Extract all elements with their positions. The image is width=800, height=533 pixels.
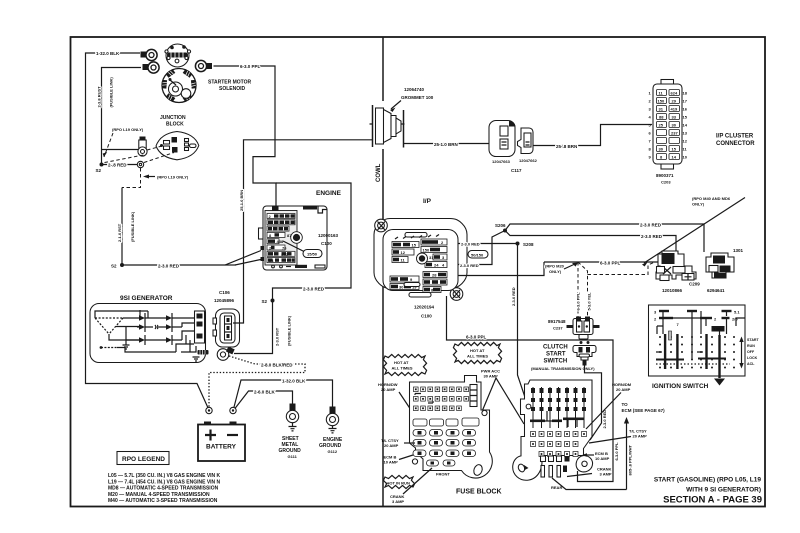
svg-text:RUN: RUN — [747, 344, 755, 348]
svg-text:438: 438 — [277, 239, 284, 244]
RPO legend box — [117, 452, 169, 465]
wire 1-32.0 BLK battery negative to engine ground — [233, 380, 333, 411]
svg-text:8900371: 8900371 — [656, 173, 674, 178]
wire 25-1.0 BRN grommet to C117 — [404, 143, 491, 145]
svg-text:C209: C209 — [689, 282, 700, 287]
svg-text:START: START — [546, 352, 566, 358]
engine ground G112 — [330, 407, 336, 415]
grommet 100 — [372, 105, 374, 147]
svg-text:30: 30 — [672, 123, 677, 128]
svg-text:94: 94 — [269, 258, 274, 263]
node S206 — [503, 229, 507, 233]
pin grid left upper — [392, 242, 419, 263]
svg-text:MD8 — AUTOMATIC 4-SPEED TRANSM: MD8 — AUTOMATIC 4-SPEED TRANSMISSION — [108, 486, 219, 492]
keyway bottom — [404, 283, 420, 287]
svg-text:10: 10 — [683, 155, 688, 160]
connector C100 engine side pin grid — [265, 211, 297, 266]
wire 2-6.0 BLK battery negative to sheet metal ground — [233, 391, 293, 411]
wire cowl bulkhead line — [382, 37, 384, 507]
svg-text:12064740: 12064740 — [404, 87, 425, 92]
dashed wire 6-3.0 PPL to clutch switch C237 — [577, 262, 579, 318]
svg-text:15/50: 15/50 — [307, 252, 318, 257]
svg-text:76: 76 — [282, 245, 287, 250]
svg-text:20 AMP: 20 AMP — [384, 443, 399, 448]
fuse block rear bottom slots — [541, 456, 546, 462]
svg-text:C117: C117 — [511, 168, 522, 173]
svg-text:2-3.0 RED: 2-3.0 RED — [303, 287, 325, 292]
fuse block front fuse rows — [413, 418, 479, 466]
svg-text:130: 130 — [714, 327, 721, 332]
bolt center — [417, 253, 428, 264]
connector 1301 body — [706, 253, 734, 278]
pin grid left lower — [390, 276, 419, 290]
left mounting tab — [259, 228, 264, 239]
terminal 130 — [712, 326, 725, 332]
svg-text:2-3.0 RED: 2-3.0 RED — [640, 223, 662, 228]
svg-text:I/P CLUSTER: I/P CLUSTER — [716, 134, 754, 140]
svg-text:I/P: I/P — [423, 198, 432, 205]
dashed wire eyelet to junction block — [144, 153, 174, 163]
svg-text:S2: S2 — [262, 299, 268, 304]
svg-text:3 AMP: 3 AMP — [600, 472, 612, 477]
svg-text:(FUSIBLE LINK): (FUSIBLE LINK) — [109, 77, 114, 108]
ignition switch wiper bars — [665, 334, 719, 378]
svg-text:ECM (SEE PAGE 67): ECM (SEE PAGE 67) — [622, 408, 666, 413]
rectifier ground — [123, 345, 130, 349]
svg-text:20 AMP: 20 AMP — [633, 434, 648, 439]
svg-text:IGNITION SWITCH: IGNITION SWITCH — [652, 383, 709, 390]
svg-text:2-3.0 RED: 2-3.0 RED — [641, 234, 663, 239]
wire 6-3.0 PPL to C209 — [544, 261, 658, 263]
ignition switch contact dots — [659, 336, 735, 369]
key position arrow — [741, 340, 743, 365]
svg-text:(MANUAL TRANSMISSION ONLY): (MANUAL TRANSMISSION ONLY) — [531, 366, 595, 371]
wire 25-1.0 BRN grommet to generator connector C106 — [233, 140, 372, 323]
connector C100 I/P side body — [374, 219, 467, 289]
svg-text:FUSE BLOCK: FUSE BLOCK — [456, 489, 502, 496]
svg-text:GROMMET 100: GROMMET 100 — [401, 95, 434, 100]
svg-text:CONNECTOR: CONNECTOR — [716, 141, 755, 147]
battery terminal studs — [206, 407, 212, 413]
bottom edge terminals — [272, 265, 275, 268]
svg-text:2-1.0 RST: 2-1.0 RST — [117, 223, 122, 242]
wire 805-.8 PPL/WHT ECM arrow — [552, 420, 627, 490]
stator phase leads — [95, 311, 148, 340]
svg-text:L19 — 7.4L (454 CU. IN.) V8 GA: L19 — 7.4L (454 CU. IN.) V8 GAS ENGINE V… — [108, 479, 221, 485]
ignition switch internal wiring — [657, 311, 745, 360]
rotor field brush lead — [100, 346, 103, 349]
svg-text:RPO LEGEND: RPO LEGEND — [122, 456, 165, 463]
wire junction block stud feed — [102, 149, 139, 151]
svg-text:2-3.0 RED: 2-3.0 RED — [602, 410, 607, 429]
pin grid right lower — [423, 272, 447, 293]
svg-text:2-3.0 RST: 2-3.0 RST — [275, 327, 280, 346]
svg-text:HOT IN RUN: HOT IN RUN — [387, 481, 410, 486]
svg-text:25-.8 BRN: 25-.8 BRN — [556, 144, 577, 149]
svg-text:OFF: OFF — [747, 350, 755, 354]
wire 1-32.0 BLK from ring terminal to battery positive — [86, 53, 210, 411]
svg-text:L05 — 5.7L (350 CU. IN.) V8 GA: L05 — 5.7L (350 CU. IN.) V8 GAS ENGINE V… — [108, 473, 221, 479]
rectifier bridge diodes — [139, 315, 172, 343]
svg-text:G112: G112 — [328, 449, 338, 454]
node S2 right splice — [271, 299, 275, 303]
connector C100 I/P inner shell — [383, 230, 458, 291]
svg-text:SECTION A - PAGE 39: SECTION A - PAGE 39 — [663, 495, 762, 506]
svg-text:150: 150 — [658, 99, 665, 104]
svg-text:SWITCH: SWITCH — [544, 359, 568, 365]
svg-text:30: 30 — [659, 147, 664, 152]
keyway top — [405, 233, 427, 238]
fuse block rear terminal columns — [533, 387, 584, 428]
svg-text:2-8.0 BLK/RED: 2-8.0 BLK/RED — [261, 363, 293, 368]
clutch start switch connector — [580, 341, 583, 344]
connector C237 clutch switch — [573, 319, 593, 335]
svg-text:C100: C100 — [321, 241, 332, 246]
svg-text:12047663: 12047663 — [492, 159, 511, 164]
svg-text:17: 17 — [683, 99, 688, 104]
connector C100 bolt — [291, 232, 303, 244]
svg-text:12: 12 — [683, 139, 688, 144]
dashed lead RPO L19 to junction block — [147, 146, 162, 150]
generator BAT output stud — [198, 350, 209, 355]
terminal eyelet 2-.8 RED — [137, 161, 143, 167]
ring terminal battery cable 1 — [141, 52, 147, 58]
wire 6-3.0 PPL I/P bottom to fuse block — [447, 296, 614, 482]
cluster connector pin numbers — [658, 91, 679, 160]
svg-text:ONLY): ONLY) — [692, 202, 705, 207]
node S2 engine harness splice — [100, 163, 104, 167]
svg-text:472: 472 — [281, 252, 288, 257]
generator internal output leads — [176, 335, 196, 352]
svg-text:C100: C100 — [421, 314, 432, 319]
contact bus bars — [656, 359, 726, 360]
svg-text:2-3.0 RED: 2-3.0 RED — [158, 264, 180, 269]
svg-text:2-3.8 RUST: 2-3.8 RUST — [97, 86, 102, 108]
cluster connector cavity numbers — [649, 91, 688, 160]
wire loop engine connector to S2 splice (2-3.0 RED) — [234, 183, 351, 354]
mounting ear bottom right — [450, 288, 463, 301]
svg-text:12: 12 — [401, 250, 406, 255]
svg-text:18: 18 — [683, 91, 688, 96]
svg-text:(RPO L19 ONLY): (RPO L19 ONLY) — [157, 175, 189, 180]
rectifier bus wiring — [126, 310, 196, 345]
svg-text:CLUTCH: CLUTCH — [543, 345, 568, 351]
wire 2-1.0 RST fusible link down to S2 — [121, 188, 123, 266]
sheet metal ground G111 — [290, 404, 296, 412]
I/P cluster connector C203 body — [661, 80, 674, 85]
wire 2-.8 RED S2 to junction terminal — [102, 164, 138, 166]
svg-text:WITH 9 SI GENERATOR): WITH 9 SI GENERATOR) — [686, 487, 761, 494]
border frame — [71, 37, 766, 507]
svg-text:(RPO M20: (RPO M20 — [545, 264, 565, 269]
svg-text:ACL: ACL — [747, 362, 755, 366]
connector C209 body — [656, 251, 696, 279]
ring terminal battery cable 2 — [143, 64, 149, 70]
svg-text:HOT AT: HOT AT — [394, 360, 409, 365]
svg-text:(FUSIBLE LINK): (FUSIBLE LINK) — [287, 315, 292, 346]
svg-text:2/5: 2/5 — [732, 317, 738, 322]
svg-text:ENGINE: ENGINE — [316, 190, 342, 197]
connector C100 engine side body — [263, 206, 327, 270]
dashed wire 5-3.0 YEL C237 to C209 — [578, 262, 655, 318]
svg-text:25-1.0 BRN: 25-1.0 BRN — [434, 142, 458, 147]
svg-text:(RPO L19 ONLY): (RPO L19 ONLY) — [112, 127, 144, 132]
svg-text:JUNCTION: JUNCTION — [160, 115, 186, 121]
hot at all times squiggle middle — [453, 342, 501, 363]
svg-text:G111: G111 — [288, 454, 298, 459]
svg-text:9SI GENERATOR: 9SI GENERATOR — [120, 295, 173, 302]
junction block body — [156, 132, 199, 160]
svg-text:C237: C237 — [553, 326, 563, 331]
svg-text:6-3.0 PPL: 6-3.0 PPL — [600, 261, 621, 266]
svg-text:S206: S206 — [495, 223, 506, 228]
svg-text:2-6.0 BLK: 2-6.0 BLK — [254, 390, 276, 395]
svg-text:30: 30 — [399, 285, 404, 290]
svg-text:12047662: 12047662 — [519, 158, 538, 163]
svg-text:1-32.0 BLK: 1-32.0 BLK — [282, 379, 306, 384]
pointer V to fuse blocks — [478, 378, 524, 424]
pin grid right upper — [421, 239, 447, 268]
stator delta winding — [95, 318, 123, 334]
svg-text:6-3.0 PPL: 6-3.0 PPL — [576, 292, 581, 311]
wire 2-3.0 RED clutch switch to fuse block rear — [585, 365, 602, 440]
starter motor solenoid body — [162, 69, 196, 103]
svg-text:C106: C106 — [219, 290, 230, 295]
svg-text:25: 25 — [659, 123, 664, 128]
svg-text:2-.8 RED: 2-.8 RED — [108, 163, 127, 168]
svg-text:12010866: 12010866 — [662, 288, 683, 293]
connector C106 body — [216, 309, 240, 347]
svg-text:12020194: 12020194 — [414, 305, 435, 310]
pin top PPL entry — [272, 207, 279, 212]
generator terminal block — [195, 311, 205, 343]
svg-text:1-32.0 BLK: 1-32.0 BLK — [96, 51, 120, 56]
svg-text:5.1: 5.1 — [734, 310, 740, 315]
svg-text:M20 — MANUAL 4-SPEED TRANSMISS: M20 — MANUAL 4-SPEED TRANSMISSION — [108, 492, 210, 498]
connector 12047662 half of C117 — [518, 128, 534, 154]
svg-text:FRONT: FRONT — [436, 472, 450, 477]
svg-text:START: START — [747, 338, 760, 342]
svg-text:STARTER MOTOR: STARTER MOTOR — [208, 80, 252, 86]
svg-text:10 AMP: 10 AMP — [384, 460, 399, 465]
svg-text:15: 15 — [412, 243, 417, 248]
svg-text:3 AMP: 3 AMP — [392, 499, 404, 504]
svg-text:88: 88 — [659, 115, 664, 120]
generator housing — [90, 304, 206, 363]
svg-text:25-1.0 BRN: 25-1.0 BRN — [239, 190, 244, 211]
svg-text:6294641: 6294641 — [707, 288, 725, 293]
svg-text:HOT AT: HOT AT — [470, 348, 485, 353]
wire 6-3.0 PPL solenoid to engine connector — [214, 66, 277, 212]
junction block internal terminals — [172, 137, 178, 143]
svg-text:10 AMP: 10 AMP — [595, 456, 610, 461]
svg-text:31: 31 — [429, 255, 434, 260]
starter solenoid top stud connector — [166, 44, 189, 67]
hot in run squiggle — [383, 475, 414, 488]
svg-text:S2: S2 — [96, 168, 102, 173]
svg-text:BATTERY: BATTERY — [206, 444, 237, 451]
dashed wire option L19 lower — [122, 168, 141, 188]
svg-text:S2: S2 — [111, 264, 117, 269]
fuse block rear lower pin squares — [531, 432, 587, 457]
wire 2-3.0 RED I/P pin to S208 — [458, 243, 518, 245]
wire 6-3.0 PPL I/P pin to C209 — [458, 262, 544, 276]
svg-text:C203: C203 — [661, 180, 671, 185]
svg-text:ONLY): ONLY) — [549, 269, 562, 274]
svg-text:TO: TO — [622, 402, 629, 407]
svg-text:SOLENOID: SOLENOID — [219, 86, 246, 92]
svg-text:15: 15 — [683, 115, 688, 120]
svg-text:31: 31 — [659, 107, 664, 112]
wire 2-3.0 RED S206 to connector 1301 — [505, 224, 704, 252]
svg-text:24: 24 — [434, 263, 439, 268]
svg-text:5-3.0 YEL: 5-3.0 YEL — [587, 292, 592, 310]
svg-text:ALL TIMES: ALL TIMES — [392, 366, 413, 371]
svg-text:28: 28 — [432, 273, 437, 278]
svg-text:237: 237 — [671, 131, 678, 136]
svg-text:20 AMP: 20 AMP — [616, 387, 631, 392]
junction block battery stud — [140, 137, 146, 141]
wire 2-3.0 RED I/P pin to S206 — [458, 231, 505, 265]
svg-text:419: 419 — [671, 107, 678, 112]
wire 25-.8 BRN C117 to cluster connector — [533, 125, 652, 146]
svg-text:COWL: COWL — [376, 163, 382, 182]
terminal 50/150 capsule — [468, 251, 488, 259]
svg-text:S208: S208 — [523, 242, 534, 247]
svg-text:2-3.0 RED: 2-3.0 RED — [460, 263, 479, 268]
ring terminal solenoid S terminal — [195, 60, 206, 71]
mounting ear top left — [375, 219, 388, 232]
connector 12047663 half of C117 — [489, 121, 515, 157]
lead line to 15/50 terminal — [283, 241, 305, 252]
output ring terminal — [217, 349, 229, 361]
svg-text:13: 13 — [683, 131, 688, 136]
svg-text:624: 624 — [671, 91, 678, 96]
svg-text:2-3.0 RED: 2-3.0 RED — [511, 287, 516, 306]
ignition switch box — [649, 305, 746, 376]
ignition switch chassis ground — [714, 379, 725, 386]
svg-text:2-3.0 RED: 2-3.0 RED — [461, 242, 480, 247]
svg-text:6-3.0 PPL: 6-3.0 PPL — [466, 335, 487, 340]
svg-text:LOCK: LOCK — [747, 356, 758, 360]
svg-text:1301: 1301 — [733, 248, 744, 253]
svg-text:12045896: 12045896 — [214, 298, 235, 303]
svg-text:BLOCK: BLOCK — [166, 122, 184, 128]
svg-text:15: 15 — [672, 147, 677, 152]
svg-text:16: 16 — [683, 107, 688, 112]
node S208 — [516, 242, 520, 246]
svg-text:14: 14 — [672, 155, 677, 160]
hot at all times squiggle left — [383, 354, 426, 375]
fuse block front pin matrix — [414, 387, 469, 411]
svg-text:12000163: 12000163 — [318, 233, 339, 238]
fuse block rear body — [513, 380, 592, 480]
svg-text:M40 — AUTOMATIC 3-SPEED TRANSM: M40 — AUTOMATIC 3-SPEED TRANSMISSION — [108, 498, 218, 504]
fuse block front body — [410, 376, 493, 479]
svg-text:805-.8 PPL/WHT: 805-.8 PPL/WHT — [628, 444, 633, 475]
svg-text:20 AMP: 20 AMP — [381, 387, 396, 392]
node S2 generator splice — [120, 263, 124, 267]
svg-text:29: 29 — [672, 99, 677, 104]
terminal 15/50 — [303, 250, 322, 258]
wire 2-3.8 RUST fusible link — [102, 68, 142, 165]
svg-text:14: 14 — [683, 123, 688, 128]
svg-text:REAR: REAR — [551, 485, 562, 490]
svg-text:START (GASOLINE) (RPO L05, L19: START (GASOLINE) (RPO L05, L19 — [654, 477, 762, 484]
svg-text:33: 33 — [672, 115, 677, 120]
svg-text:(FUSIBLE LINK): (FUSIBLE LINK) — [130, 211, 135, 242]
wire 2-3.0 RED S208 down to fuse block rear — [518, 244, 534, 422]
svg-text:(RPO M40 AND MD6: (RPO M40 AND MD6 — [692, 196, 731, 201]
wire 2-3.0 RED S2 to engine connector — [122, 251, 263, 266]
battery — [204, 422, 211, 426]
svg-text:150: 150 — [423, 248, 430, 253]
svg-text:6-3.0 PPL: 6-3.0 PPL — [240, 64, 261, 69]
dotted wire 2-8.0 BLK/RED to battery — [209, 356, 305, 408]
svg-text:50/150: 50/150 — [471, 253, 484, 258]
wire 2-3.0 RED S206 to connector C209 — [505, 231, 676, 252]
svg-text:6-3.0 PPL: 6-3.0 PPL — [614, 442, 619, 461]
svg-text:8917548: 8917548 — [548, 319, 566, 324]
cluster connector pin rows — [657, 90, 680, 160]
svg-text:ALL TIMES: ALL TIMES — [467, 354, 488, 359]
